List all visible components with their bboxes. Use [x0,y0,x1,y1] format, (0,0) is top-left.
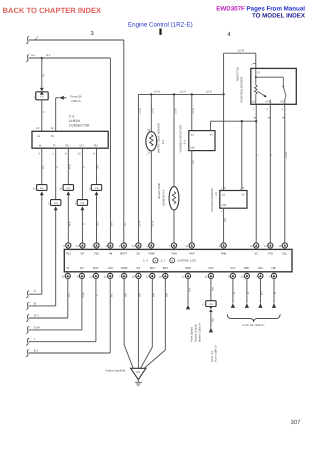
svg-text:BR: BR [139,293,142,297]
svg-text:E 8: E 8 [162,139,165,144]
wire G-W from ECU FC [26,279,82,334]
connector arrow below box [95,191,99,195]
svg-text:L 6: L 6 [215,192,218,196]
ECU bottom pin E1 [132,266,141,279]
node LG-R bus [138,90,224,243]
svg-text:G-Y: G-Y [34,314,39,318]
wire VTA to ECU [268,104,274,243]
junction connector box on wire TF from check connector [48,200,61,206]
ECU bottom pin A10 [104,266,113,279]
connector C6 box [33,92,48,100]
column separator bar [159,29,161,35]
svg-text:Engine Control (1RZ-E): Engine Control (1RZ-E) [128,22,193,29]
svg-text:LG-R: LG-R [139,108,142,114]
svg-text:BR: BR [224,218,227,222]
svg-text:SENSOR E 6: SENSOR E 6 [162,189,165,206]
svg-text:BR: BR [166,293,169,297]
wire IGF from IIA [258,279,263,308]
svg-text:ENGINE ECU: ENGINE ECU [178,259,197,263]
wire continuation wire TE2 to ECU [96,195,98,243]
label THROTTLE POSITION SENSOR [236,67,244,103]
svg-text:G: G [83,223,86,225]
ECU bottom pin STA [205,266,214,279]
svg-text:EWD307F Pages From Manual: EWD307F Pages From Manual [216,6,305,13]
svg-text:Intake manifold: Intake manifold [106,368,126,372]
svg-text:VC: VC [252,101,256,104]
svg-text:E2: E2 [137,251,141,255]
label intake manifold [106,368,126,372]
inline connector bowtie on STA [209,306,213,312]
label from speed sensor [191,323,202,342]
ECU top pin IDL [278,243,287,256]
svg-text:WATER TEMP. SENSOR: WATER TEMP. SENSOR [158,123,161,153]
svg-text:From ‘ST’: From ‘ST’ [211,350,214,362]
check connector pin numbers 12 14 [36,126,54,130]
ECU bottom pin IGT [228,266,236,279]
svg-text:C 3: C 3 [69,114,74,118]
label C3 CHECK CONNECTOR [69,114,90,127]
svg-text:BR: BR [97,165,100,169]
wire STA continuation with source arrow [209,312,215,332]
svg-text:VC: VC [241,193,245,196]
page column number 3 [90,30,94,37]
wire STA from ST fuse [211,279,214,301]
wire VAF to ECU [192,151,195,243]
svg-text:E01: E01 [150,266,156,270]
wire SPD from speed sensor [186,279,192,310]
label WATER TEMP. SENSOR E8 [158,123,165,153]
svg-text:R-B: R-B [211,287,214,291]
wire continuation wire W from check connector [41,195,43,294]
svg-text:G-O: G-O [188,288,191,293]
svg-text:B-L: B-L [43,72,46,77]
svg-text:TE2: TE2 [93,145,98,148]
svg-text:VAF: VAF [189,251,195,255]
wire NE- from IIA [272,279,277,308]
svg-text:B-Y: B-Y [261,291,264,295]
svg-text:VC: VC [254,251,258,255]
svg-text:TF: TF [53,145,57,148]
wire VC link from variable resistor [211,120,258,131]
svg-text:P: P [34,290,36,294]
label IN-AIR TEMP. SENSOR E6 [158,182,165,206]
wire TE1 to ECU [68,148,71,184]
wire TF from check connector [56,148,59,199]
ECU top pin VAF [185,243,194,256]
svg-text:TO MODEL INDEX: TO MODEL INDEX [252,13,306,20]
svg-text:BR: BR [97,222,100,226]
ECU bottom pin E02 [159,266,168,279]
svg-text:G-W: G-W [34,325,40,329]
svg-text:Sensor (Comb.: Sensor (Comb. [195,324,198,342]
svg-text:THA: THA [171,251,177,255]
svg-text:NE-: NE- [272,266,277,270]
connector arrow below box [40,191,44,195]
connector arrow below box [81,206,85,210]
in-air temp sensor E6 (thermistor) [169,94,179,243]
svg-text:R-B: R-B [211,318,214,322]
svg-text:W-B: W-B [69,164,72,169]
wire PIM to ECU [221,208,227,243]
svg-text:B-L: B-L [124,221,127,225]
svg-text:LG-R: LG-R [174,108,177,114]
svg-text:TE1: TE1 [65,145,70,148]
svg-text:VARIABLE RESISTOR: VARIABLE RESISTOR [179,125,182,152]
svg-text:VC: VC [209,134,213,137]
ECU top pin E2 [132,243,141,256]
svg-text:Meter) <28D-3>: Meter) <28D-3> [198,323,201,342]
connector arrow below box [54,206,58,210]
svg-text:Fuse <29B-2>: Fuse <29B-2> [215,345,218,362]
wire continuation wire TF from check connector [55,210,57,306]
svg-text:B-L: B-L [47,54,52,57]
wire TE2 to ECU [97,148,100,184]
wire top feed line B-L (row 2) to +B [26,54,110,243]
svg-text:PIM: PIM [222,204,227,207]
svg-text:From IIA <29A-2>: From IIA <29A-2> [243,323,265,327]
wire IDL to ECU [282,104,288,243]
ECU top pin TE1 [63,243,71,256]
ground point ED triangle on intake manifold [131,368,146,379]
svg-text:STA: STA [208,266,213,270]
ECU top pin THW [146,243,155,256]
svg-text:B-L: B-L [32,54,37,57]
svg-text:E 4: E 4 [143,259,148,263]
svg-text:E2: E2 [222,193,226,196]
svg-text:+B: +B [37,135,40,138]
ECU bottom pin FC [77,266,85,279]
svg-text:BR: BR [124,293,127,297]
svg-text:FC: FC [80,266,84,270]
throttle sensor pin labels VC VTA IDL [252,101,285,104]
svg-text:W: W [66,266,69,270]
wire C6 to check connector pin 12 [42,100,46,132]
svg-text:IN-AIR TEMP.: IN-AIR TEMP. [158,182,161,199]
svg-text:E2: E2 [191,134,195,137]
page column number 4 [227,31,231,38]
header to-model-index [252,13,306,20]
wire throttle E2 loop [224,53,256,68]
svg-text:B: B [34,301,36,305]
check connector C3 box [32,131,108,148]
ECU bottom pin NE+ [241,266,251,279]
wire P to check W [26,290,42,298]
wire continuation wire TE1 to ECU [67,195,69,243]
svg-text:E 1: E 1 [161,259,166,263]
svg-text:VAF: VAF [190,147,195,150]
junction connector box on wire TE1 to ECU [59,185,73,191]
svg-text:LG-R: LG-R [154,90,160,93]
svg-text:IDL: IDL [283,251,288,255]
wire NSW/E1/E01/E02 grounds [124,279,133,369]
svg-text:14: 14 [50,126,54,130]
ECU top pin VF [76,243,85,256]
throttle sensor internals: E2 node, idle switch, potentiometer [254,68,286,104]
svg-text:E21: E21 [93,266,99,270]
water temp sensor E8 (thermistor) [146,94,157,243]
svg-text:LG-R: LG-R [206,90,212,93]
wire W from check connector [42,148,45,184]
svg-text:TE2: TE2 [94,251,100,255]
vacuum sensor box [220,191,247,209]
svg-text:VTA: VTA [268,251,273,255]
throttle pin numbers [253,108,284,111]
svg-text:IGF: IGF [258,266,263,270]
rotated labels on ECU bottom-left wires [68,292,113,298]
header link back-to-chapter-index [3,6,102,15]
ECU top pin TE2 [92,243,100,256]
svg-text:LG-B: LG-B [285,152,288,158]
svg-text:BACK TO CHAPTER INDEX: BACK TO CHAPTER INDEX [3,6,102,15]
junction connector box on wire W from check connector [33,185,47,191]
svg-text:SPD: SPD [185,266,191,270]
ECU bottom pin IGF [255,266,263,279]
svg-text:BATT: BATT [120,251,127,255]
svg-text:G: G [83,166,86,168]
wire L from ECU E21 [26,279,96,346]
from 5A source arrow [56,95,82,132]
svg-text:LG-R: LG-R [238,49,244,52]
svg-text:E1: E1 [137,266,141,270]
svg-text:W-B: W-B [69,221,72,226]
header EWD307F pages-from-manual [216,6,305,13]
svg-text:FD: FD [51,135,55,138]
svg-text:G-W: G-W [82,292,85,298]
svg-text:CHECK: CHECK [69,119,81,123]
label VARIABLE RESISTOR E4 [179,125,186,152]
wire VC to ECU [254,104,260,243]
wire drop to check connector [42,58,46,87]
ECU bottom pin NSW [119,266,128,279]
svg-text:12: 12 [36,126,40,130]
junction connector box on wire TE2 to ECU [89,185,102,191]
svg-text:CONNECTOR: CONNECTOR [69,123,90,127]
wire VF1 to ECU [82,148,85,199]
svg-text:B-L: B-L [34,349,39,353]
throttle position sensor box [251,68,296,104]
connector arrow below box [66,191,70,195]
engine ECU box [64,249,292,271]
wire continuation wire VF1 to ECU [81,210,83,243]
junction connector box on wire VF1 to ECU [75,200,88,206]
label from ST fuse [211,345,218,362]
brace from IIA [227,314,280,327]
svg-text:13: 13 [78,153,81,156]
svg-text:A10: A10 [108,266,114,270]
svg-text:E02: E02 [163,266,169,270]
ECU bottom pin W [61,266,70,279]
ECU bottom pin E01 [146,266,155,279]
rotated wire color labels above ECU [69,221,155,227]
ECU top pin +B [105,243,113,256]
svg-text:TE1: TE1 [66,251,72,255]
svg-text:307: 307 [290,419,301,426]
wire vacuum sensor VC riser [240,121,244,190]
svg-text:VTA: VTA [265,101,270,104]
ECU top pin THA [169,243,177,256]
check connector bottom pin numbers [38,153,95,156]
svg-text:VF: VF [81,251,85,255]
junction connector box on STA [202,301,216,307]
svg-text:B-R: B-R [111,222,114,226]
label LG-R throttle feed [238,49,244,52]
svg-text:LG-R: LG-R [179,90,185,93]
rotated LG-R labels on sensor drops [139,108,195,114]
svg-text:From Speed: From Speed [191,327,194,342]
wire B-L from ECU A10 [26,279,110,357]
svg-text:BR: BR [153,293,156,297]
ECU identity labels E4 E1 ENGINE ECU [143,258,196,263]
ECU top pin VC [250,243,259,256]
wire top feed line B-L (fusible link row 1) [26,36,124,243]
variable resistor E4 box [189,94,215,150]
svg-text:LG: LG [192,160,195,163]
page number 307 [290,419,301,426]
svg-text:<29A-2>: <29A-2> [71,99,82,103]
inline connector bowtie arrows [40,88,44,95]
ECU bottom pin NE- [269,266,277,279]
svg-text:C6: C6 [40,96,44,99]
svg-text:LG-R: LG-R [139,221,142,227]
wire G-Y from ECU W [26,279,68,322]
svg-text:E 4: E 4 [184,139,187,144]
ECU bottom pin SPD [182,266,191,279]
wire LG-R throttle E2 down through bus to vacuum sensor [221,53,225,190]
svg-text:PIM: PIM [221,251,227,255]
wire NE+ from IIA [245,279,250,308]
title Engine Control (1RZ-E) [128,22,193,29]
svg-text:G-Y: G-Y [68,292,71,297]
svg-text:LG-R: LG-R [192,108,195,114]
svg-text:IDL: IDL [280,101,285,104]
ECU top pin BATT [119,243,128,256]
svg-text:POSITION SENSOR: POSITION SENSOR [240,77,244,103]
wire B to check TF [26,301,56,309]
wire IGT from IIA [231,279,236,308]
ECU bottom pin E21 [90,266,99,279]
svg-text:NE+: NE+ [244,266,250,270]
svg-text:ED: ED [137,371,141,374]
svg-text:VACUUM SENSOR: VACUUM SENSOR [211,188,214,212]
ECU top pin PIM [219,243,227,256]
svg-text:+B: +B [109,251,113,255]
svg-text:LG-R: LG-R [152,108,155,114]
svg-text:B-L: B-L [42,164,45,168]
label VACUUM SENSOR [211,188,218,212]
ECU top pin VTA [264,243,273,256]
svg-text:THW: THW [148,251,155,255]
svg-text:LG-B: LG-B [152,221,155,227]
svg-text:NSW: NSW [121,266,128,270]
svg-text:IGT: IGT [230,266,235,270]
svg-text:VF1: VF1 [79,145,84,148]
ground symbol [135,380,142,386]
